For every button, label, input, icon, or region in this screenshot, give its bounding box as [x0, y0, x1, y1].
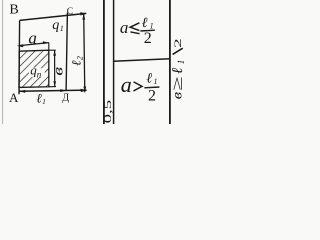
hatch top extension line to b dimension: [49, 49, 56, 51]
table rule: horizontal separator between formula cells: [114, 59, 170, 62]
table rule: vertical line between drawing and 0,5 column: [103, 0, 105, 124]
svg-text:≥: ≥: [169, 76, 186, 90]
l2 top arrowhead: [82, 14, 85, 20]
svg-text:2: 2: [144, 30, 152, 47]
hatch bottom extension line to b dimension: [49, 86, 56, 88]
svg-text:ℓ1: ℓ1: [170, 60, 186, 74]
plate bottom edge A-D with extension (doubles as l1 dimension line): [19, 90, 87, 91]
svg-text:a: a: [120, 18, 128, 37]
white halo for q_p label: [29, 67, 45, 77]
l1 left arrowhead on bottom edge: [19, 90, 25, 93]
svg-text:1: 1: [154, 77, 158, 86]
svg-text:в: в: [50, 66, 66, 75]
a dimension right extension (up from hatch corner): [48, 43, 50, 51]
dimension line a (horizontal): [20, 43, 49, 46]
svg-text:А: А: [9, 90, 19, 105]
less-or-equal sign drawn as path: [130, 23, 139, 31]
svg-text:ℓ2: ℓ2: [69, 56, 85, 66]
table rule: vertical line right of formula column: [169, 0, 171, 124]
svg-text:q: q: [52, 18, 59, 33]
svg-text:Д: Д: [62, 93, 69, 104]
svg-text:a: a: [28, 28, 37, 47]
svg-text:С: С: [67, 7, 73, 17]
svg-text:1: 1: [60, 24, 64, 33]
table rule: faint outer left border: [2, 0, 4, 124]
hatched load area: [19, 50, 49, 87]
l2 bottom arrowhead: [83, 87, 86, 93]
a right arrowhead: [43, 41, 49, 44]
dimension line b (vertical): [54, 50, 56, 86]
svg-text:a: a: [121, 72, 132, 97]
table rule: vertical line right of 0,5 column: [113, 0, 115, 124]
slash of l1/2 in right column: [173, 48, 183, 54]
svg-text:ℓ1: ℓ1: [36, 90, 46, 106]
b bottom arrowhead: [53, 81, 56, 87]
svg-text:в: в: [170, 92, 185, 100]
svg-text:п: п: [37, 69, 42, 79]
l1 right arrowhead on bottom edge: [60, 89, 66, 92]
dimension line l2 (vertical, right of plate): [84, 14, 85, 93]
svg-text:2: 2: [173, 38, 183, 48]
plate right edge C-D: [66, 13, 67, 91]
svg-text:2: 2: [148, 87, 156, 104]
a left arrowhead: [17, 44, 23, 47]
b top arrowhead: [53, 50, 56, 56]
svg-text:0,5: 0,5: [103, 100, 114, 124]
plate top edge B-C with extension to l2 dimension line: [20, 13, 87, 20]
svg-text:В: В: [9, 3, 18, 18]
arrowhead at right end of top extension: [80, 12, 86, 15]
greater-than sign drawn as path: [133, 82, 142, 91]
plate left edge B-A: [18, 20, 21, 94]
svg-text:ℓ: ℓ: [146, 71, 152, 86]
arrowhead at right end of bottom extension: [81, 89, 88, 92]
